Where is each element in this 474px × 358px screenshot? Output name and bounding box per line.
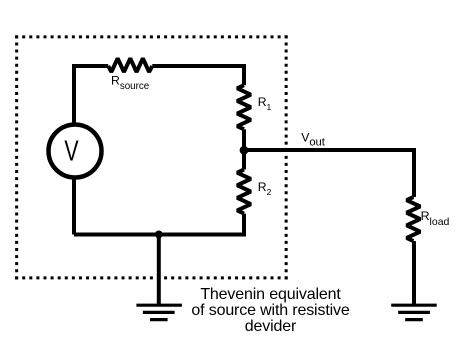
ground (right) [391, 305, 437, 319]
svg-text:V: V [64, 136, 78, 168]
svg-text:Rload: Rload [421, 209, 450, 228]
svg-text:devider: devider [245, 318, 297, 335]
voltage source V1 [49, 125, 102, 178]
svg-text:of source with resistive: of source with resistive [191, 302, 349, 319]
svg-text:Rsource: Rsource [111, 74, 150, 92]
resistor R1 [237, 85, 251, 129]
resistor Rload [407, 197, 421, 241]
svg-text:R2: R2 [258, 180, 272, 197]
wire divider bottom lead [242, 214, 246, 235]
wire load top lead [412, 148, 416, 197]
thevenin box (dashed border) [15, 35, 288, 279]
resistor R2 [237, 170, 251, 214]
wire top right [152, 64, 244, 68]
node Vout junction dot [240, 146, 249, 155]
wire divider top lead [242, 64, 246, 85]
svg-text:Vout: Vout [301, 130, 326, 148]
svg-text:Thevenin equivalent: Thevenin equivalent [200, 286, 341, 303]
svg-text:R1: R1 [258, 95, 272, 112]
wire between R1 and R2 [242, 129, 246, 169]
caption text [191, 286, 349, 335]
resistor Rsource [108, 58, 152, 72]
wire to ground [157, 235, 161, 305]
wire Vout [244, 148, 414, 152]
wire left down to source [72, 64, 76, 125]
node ground junction dot [155, 231, 163, 239]
wire top: source to divider [74, 64, 108, 68]
ground (left) [136, 305, 182, 319]
wire load bottom lead [412, 241, 416, 304]
wire source bottom [72, 178, 76, 235]
wire bottom [74, 233, 246, 237]
